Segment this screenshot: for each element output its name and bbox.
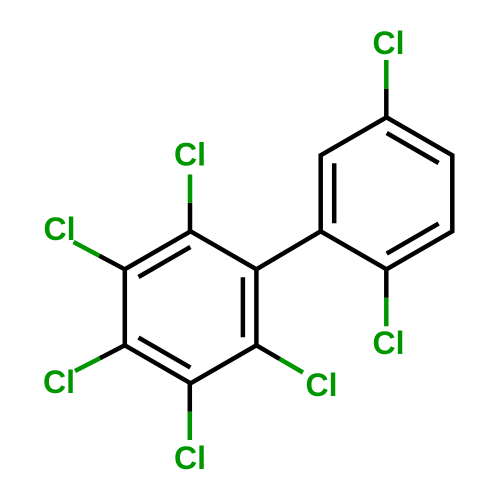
svg-text:Cl: Cl <box>373 25 405 61</box>
svg-text:Cl: Cl <box>174 440 206 476</box>
svg-text:Cl: Cl <box>174 136 206 172</box>
svg-text:Cl: Cl <box>43 364 75 400</box>
svg-text:Cl: Cl <box>373 325 405 361</box>
svg-text:Cl: Cl <box>44 211 76 247</box>
svg-text:Cl: Cl <box>306 367 338 403</box>
